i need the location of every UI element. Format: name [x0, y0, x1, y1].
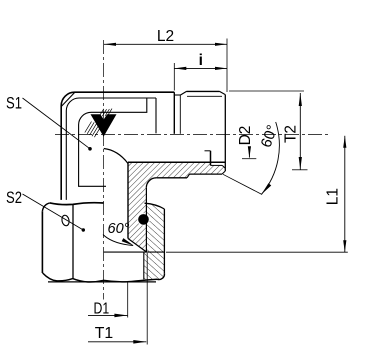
thread root line top [187, 95, 222, 97]
thread start chamfer [181, 91, 187, 95]
dim 60 upper arc [262, 122, 280, 194]
svg-text:S1: S1 [6, 94, 22, 112]
center line horizontal [55, 133, 330, 135]
nut top edge external [50, 203, 104, 205]
face of body at stud [173, 92, 175, 134]
stud bottom end chamfer [222, 171, 225, 174]
svg-text:60°: 60° [108, 221, 130, 237]
logo shading strokes top notch [100, 109, 113, 117]
logo V mark [91, 114, 117, 136]
svg-text:i: i [199, 52, 203, 69]
ext line face [173, 63, 175, 91]
body second contour [66, 98, 156, 200]
undercut silhouette [179, 95, 181, 134]
undercut groove top [174, 94, 180, 96]
nut bottom edge [43, 273, 157, 282]
body second contour right drop [155, 98, 157, 133]
bore step vertical [210, 151, 212, 166]
nut bottom right round [157, 273, 164, 279]
bore small step horizontal [205, 150, 211, 152]
bore wall vertical stub [127, 162, 129, 238]
svg-text:T1: T1 [95, 325, 114, 342]
counterbore wall [211, 164, 223, 166]
nut top edge section side [145, 203, 165, 209]
ext line stud end [226, 39, 228, 93]
white o-ring groove pocket [137, 213, 150, 226]
nut outer right edge [163, 209, 165, 273]
nut hex facet line [72, 204, 74, 278]
dim L1 [344, 136, 346, 252]
hatch body vertical stub section [128, 162, 147, 252]
svg-text:L1: L1 [325, 188, 342, 205]
seat face line [104, 251, 165, 253]
bore lower wall (thick) [128, 161, 225, 163]
chamfer extension line [223, 174, 262, 194]
nut top-left chamfer [42, 203, 49, 211]
svg-text:T2: T2 [283, 125, 300, 143]
o-ring (black dot) [138, 214, 149, 225]
dim T2 [299, 93, 301, 170]
undercut bottom [156, 177, 187, 179]
thread end chamfer [220, 91, 226, 94]
body corner chamfer chord [62, 93, 75, 107]
svg-text:L2: L2 [157, 28, 174, 45]
bore end chamfer [222, 165, 225, 168]
thread runout ellipse mark [61, 215, 70, 227]
thread runout step bottom [187, 174, 190, 178]
dim L2 [104, 43, 227, 45]
thread crest top [187, 90, 220, 92]
dim i [174, 67, 227, 69]
bore end cone curve [104, 149, 128, 164]
center line vertical [102, 40, 104, 300]
svg-text:S2: S2 [6, 189, 22, 207]
thread root bottom [190, 173, 223, 175]
60 deg cone seat [128, 239, 147, 253]
inner face frame [79, 98, 147, 186]
stub outer / nut inner line [145, 188, 147, 252]
external fillet arc [146, 178, 156, 188]
nut left edge [41, 211, 43, 273]
body outer contour [61, 92, 174, 200]
svg-text:D2: D2 [237, 126, 254, 146]
stud end face [224, 95, 226, 171]
hatch body horizontal arm section [128, 162, 225, 252]
logo shading strokes bottom-left [85, 122, 101, 138]
nut inner lower wall [143, 252, 145, 279]
hatch nut wall section [144, 203, 165, 279]
